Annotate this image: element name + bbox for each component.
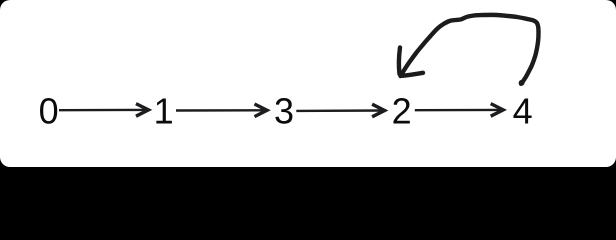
svg-text:3: 3 — [274, 91, 294, 132]
svg-text:2: 2 — [392, 91, 412, 132]
svg-text:1: 1 — [154, 91, 174, 132]
whiteboard canvas — [0, 0, 616, 167]
svg-text:0: 0 — [39, 91, 59, 132]
svg-text:4: 4 — [513, 91, 533, 132]
hand-drawn loop arrow from 4 back to 2 : shaft — [401, 15, 538, 84]
loop end blob — [519, 80, 525, 86]
arrow 3 to 2 — [296, 104, 384, 117]
arrow 0 to 1 — [59, 104, 149, 117]
loop arrowhead upper barb — [399, 48, 400, 75]
arrow 1 to 3 — [176, 104, 267, 117]
loop arrowhead right barb — [401, 73, 424, 76]
arrow 2 to 4 — [415, 104, 503, 117]
